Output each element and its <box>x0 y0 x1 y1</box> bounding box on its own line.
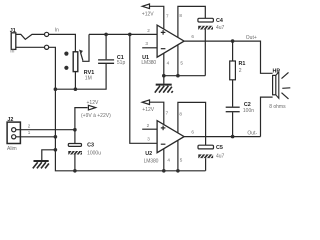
wire U1 pin 8 to C4 <box>178 6 205 37</box>
svg-text:U2: U2 <box>145 151 152 157</box>
wire input line to U1 pin 2 <box>89 33 157 35</box>
wire C2 to out minus rail <box>232 112 234 136</box>
svg-text:5: 5 <box>180 61 183 66</box>
svg-text:3: 3 <box>145 41 148 46</box>
svg-text:+12V: +12V <box>87 100 99 106</box>
wire U2 output rail <box>184 136 260 138</box>
svg-text:4u7: 4u7 <box>216 154 225 160</box>
svg-text:HP: HP <box>273 69 281 75</box>
svg-text:3: 3 <box>147 137 150 142</box>
svg-text:1: 1 <box>28 130 31 135</box>
wire U1 pins 4 5 ground rail <box>164 53 206 75</box>
ground U1 <box>155 76 173 93</box>
svg-text:(+9V à +22V): (+9V à +22V) <box>81 113 111 119</box>
U1 minus sign <box>161 48 166 50</box>
capacitor C3 positive plate <box>68 144 81 147</box>
svg-text:Alim: Alim <box>7 146 17 152</box>
U2 minus sign <box>161 143 166 145</box>
node junction pin 4 <box>162 74 166 78</box>
power +12V arrow U2 <box>142 100 149 105</box>
wire output to R1 <box>232 41 234 61</box>
svg-text:2: 2 <box>147 28 150 33</box>
svg-text:2: 2 <box>239 68 242 74</box>
svg-text:C4: C4 <box>216 18 223 24</box>
wire C5 to bottom rail <box>205 158 207 171</box>
wire jack tip to switch V <box>16 34 45 39</box>
resistor R1 <box>230 61 236 80</box>
svg-text:8 ohms: 8 ohms <box>269 104 286 110</box>
svg-text:7: 7 <box>166 13 169 18</box>
svg-text:2: 2 <box>147 123 150 128</box>
node junction branch U2 <box>128 33 132 37</box>
svg-text:8: 8 <box>179 13 182 18</box>
wire +12V rail to C3 <box>74 130 76 144</box>
svg-text:4u7: 4u7 <box>216 25 225 31</box>
capacitor C2 <box>226 106 240 108</box>
svg-text:4: 4 <box>167 61 170 66</box>
node contact circle bottom <box>45 45 49 49</box>
node junction +12V C3 <box>73 128 77 132</box>
wire speaker bottom to out minus <box>261 97 273 137</box>
svg-text:J2: J2 <box>7 117 13 123</box>
wire C4 to ground rail <box>204 30 206 76</box>
node junction C2 out minus <box>231 135 235 139</box>
svg-text:100n: 100n <box>243 108 254 114</box>
svg-text:1000u: 1000u <box>87 151 101 157</box>
svg-text:In: In <box>55 28 59 34</box>
wire U2 pin 2 stub <box>142 128 157 130</box>
op-amp U2 <box>157 121 184 153</box>
svg-text:+12V: +12V <box>142 107 154 113</box>
svg-text:J1: J1 <box>10 28 16 34</box>
power +12V arrow supply <box>75 108 88 130</box>
RV1 terminal dot lower <box>64 66 68 70</box>
node junction pin 5 <box>176 74 180 78</box>
node junction U2 pin 4 <box>162 169 166 173</box>
wire RV1 wiper to input line <box>83 34 89 61</box>
wire +12V to U1 pin 7 <box>150 6 164 29</box>
wire J2 pin 1 to ground <box>16 136 56 138</box>
node junction ground branch <box>54 148 58 152</box>
U1 plus sign <box>161 30 166 35</box>
wire jack sleeve to bottom contact <box>16 46 45 48</box>
RV1 wiper arrow <box>81 53 83 60</box>
svg-text:7: 7 <box>166 111 169 116</box>
svg-text:Out+: Out+ <box>246 35 257 41</box>
node J2 pin 1 circle <box>12 135 16 139</box>
connector J2 <box>7 122 20 143</box>
wire U2 pins 4 5 to bottom rail <box>163 149 165 171</box>
node junction U2 pin 5 <box>176 169 180 173</box>
svg-text:+12V: +12V <box>142 11 154 17</box>
wire +12V to U2 pin 7 <box>150 102 164 124</box>
svg-text:8: 8 <box>179 112 182 117</box>
capacitor C3 negative plate <box>68 151 82 155</box>
potentiometer RV1 <box>73 52 78 72</box>
svg-text:6: 6 <box>191 34 194 39</box>
svg-text:C3: C3 <box>87 142 94 148</box>
capacitor C5 positive plate <box>198 145 214 149</box>
jack J1 <box>11 33 16 50</box>
wire sleeve ground down <box>49 47 206 171</box>
U2 plus sign <box>161 126 166 131</box>
wire U1 output to speaker <box>184 41 273 73</box>
wire U1 pin 3 stub <box>142 47 157 49</box>
svg-text:In: In <box>10 49 14 55</box>
wire C3 to bottom rail <box>74 155 76 171</box>
capacitor C1 <box>98 59 114 61</box>
svg-text:6: 6 <box>191 130 194 135</box>
node J2 pin 2 circle <box>12 128 16 132</box>
node junction pot ground rail left <box>54 87 58 91</box>
svg-text:LM380: LM380 <box>144 159 159 165</box>
svg-text:1M: 1M <box>85 75 92 81</box>
node junction C3 bottom rail <box>73 169 77 173</box>
wire ground symbol branch <box>42 150 56 160</box>
node junction C1 input <box>104 33 108 37</box>
svg-text:4: 4 <box>167 157 170 162</box>
svg-text:Out-: Out- <box>247 131 257 137</box>
power +12V arrow U1 <box>142 4 149 9</box>
speaker HP <box>273 72 279 98</box>
RV1 terminal dot upper <box>64 52 68 56</box>
capacitor C5 negative plate <box>198 154 213 158</box>
ground J2 <box>33 161 49 168</box>
svg-text:C5: C5 <box>216 145 223 151</box>
wire J2 pin 2 +12V rail <box>16 129 75 131</box>
wire R1 to C2 <box>232 80 234 107</box>
svg-text:5: 5 <box>180 157 183 162</box>
wire RV1 bottom to ground rail <box>74 72 76 90</box>
node junction output R1 <box>231 39 235 43</box>
capacitor C4 negative plate <box>198 26 213 30</box>
op-amp U1 <box>157 25 184 57</box>
svg-text:2: 2 <box>28 124 31 129</box>
node junction pot bottom <box>74 87 78 91</box>
speaker sound waves <box>282 72 291 99</box>
wire input from contact to RV1 top <box>49 34 76 51</box>
svg-text:LM380: LM380 <box>141 60 156 66</box>
node junction jack ground J2 <box>54 135 58 139</box>
svg-text:51p: 51p <box>117 60 126 66</box>
wire U2 pin 8 to C5 <box>178 102 206 145</box>
wire pot ground rail <box>55 63 106 89</box>
capacitor C4 positive plate <box>198 18 214 22</box>
node In contact circle top <box>45 32 49 36</box>
wire branch to U2 pin 3 <box>130 34 157 143</box>
wire C1 top to input line <box>105 34 107 59</box>
svg-text:R1: R1 <box>239 61 246 67</box>
